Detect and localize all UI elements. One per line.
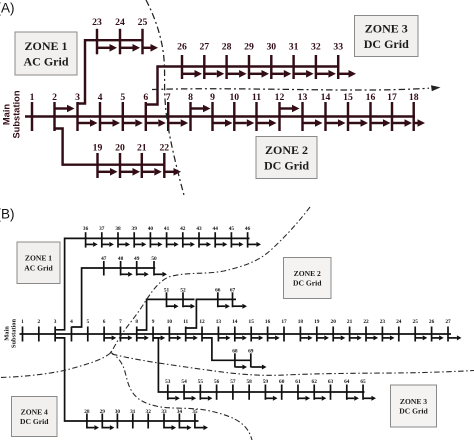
main feeder wire (B) bbox=[20, 333, 452, 335]
svg-text:3: 3 bbox=[54, 319, 57, 325]
bus 19 bbox=[314, 319, 320, 342]
load arrow bus 25 bbox=[144, 44, 159, 52]
svg-text:Substation: Substation bbox=[12, 90, 22, 138]
load arrow bus 25 bbox=[416, 335, 428, 340]
bus 65 bbox=[360, 379, 366, 400]
svg-text:42: 42 bbox=[180, 226, 186, 232]
load arrow bus 51 bbox=[167, 304, 179, 309]
load arrow bus 68 bbox=[235, 365, 247, 370]
load arrow bus 35 bbox=[195, 425, 208, 430]
bus 69 bbox=[248, 349, 254, 368]
load arrow bus 26 bbox=[183, 70, 202, 78]
bus 61 bbox=[295, 379, 301, 400]
bus 10 bbox=[167, 319, 173, 342]
load arrow bus 42 bbox=[183, 242, 195, 247]
bus 51 bbox=[164, 287, 170, 307]
svg-text:ZONE 3: ZONE 3 bbox=[365, 22, 408, 36]
bus 26 bbox=[429, 319, 435, 342]
load arrow bus 33 bbox=[165, 425, 177, 430]
svg-text:AC Grid: AC Grid bbox=[24, 263, 53, 272]
bus 6 bbox=[143, 92, 148, 131]
load arrow bus 46 bbox=[248, 242, 261, 247]
svg-text:65: 65 bbox=[360, 379, 366, 385]
svg-text:12: 12 bbox=[199, 319, 205, 325]
svg-text:2: 2 bbox=[52, 92, 57, 103]
svg-text:25: 25 bbox=[138, 17, 148, 28]
svg-text:9: 9 bbox=[210, 92, 215, 103]
svg-text:14: 14 bbox=[321, 92, 331, 103]
svg-text:Substation: Substation bbox=[11, 318, 18, 348]
svg-text:57: 57 bbox=[230, 379, 236, 385]
zone 3 DC grid box (B) bbox=[391, 385, 437, 427]
bus 55 bbox=[198, 379, 204, 400]
bus 12 bbox=[275, 92, 285, 131]
bus 25 bbox=[413, 319, 419, 342]
zone 1 AC grid box (B) bbox=[17, 242, 60, 284]
svg-text:23: 23 bbox=[92, 17, 102, 28]
svg-text:26: 26 bbox=[429, 319, 435, 325]
svg-text:41: 41 bbox=[164, 226, 170, 232]
svg-text:26: 26 bbox=[177, 42, 187, 53]
svg-text:45: 45 bbox=[229, 226, 235, 232]
bus 4 bbox=[70, 319, 73, 342]
svg-text:ZONE 2: ZONE 2 bbox=[265, 143, 308, 157]
bus 11 bbox=[183, 319, 188, 342]
zone boundary curve 1-3 / 1-2 (A) bbox=[146, 0, 185, 197]
svg-text:6: 6 bbox=[103, 319, 106, 325]
svg-text:5: 5 bbox=[120, 92, 125, 103]
bus 28 bbox=[222, 42, 232, 80]
bus 28 bbox=[84, 409, 90, 429]
bus 17 bbox=[387, 92, 397, 131]
figure label (A) bbox=[0, 1, 15, 16]
load arrow bus 39 bbox=[135, 242, 147, 247]
bus 7 bbox=[119, 319, 122, 342]
load arrow bus 10 bbox=[235, 119, 254, 127]
bus 47 bbox=[101, 256, 107, 276]
svg-text:17: 17 bbox=[281, 319, 287, 325]
load arrow bus 26 bbox=[432, 335, 444, 340]
zone boundary 3-2 with arrow (A) bbox=[152, 85, 441, 91]
bus 46 bbox=[245, 226, 251, 248]
load arrow bus 67 bbox=[233, 304, 247, 309]
svg-text:38: 38 bbox=[115, 226, 121, 232]
bus 1 bbox=[30, 92, 35, 131]
bus 57 bbox=[230, 379, 236, 400]
load arrow bus 14 bbox=[327, 119, 346, 127]
bus 50 bbox=[151, 256, 157, 276]
svg-text:49: 49 bbox=[134, 256, 140, 262]
zone 2 DC grid box (B) bbox=[284, 258, 332, 299]
load arrow bus 29 bbox=[103, 425, 115, 430]
svg-text:62: 62 bbox=[312, 379, 318, 385]
bus 23 bbox=[380, 319, 386, 342]
bus 20 bbox=[115, 143, 125, 179]
load arrow bus 40 bbox=[151, 242, 163, 247]
load arrow bus 49 bbox=[137, 272, 149, 277]
load arrow bus 23 bbox=[383, 335, 395, 340]
load arrow bus 31 bbox=[295, 70, 314, 78]
svg-text:34: 34 bbox=[177, 409, 183, 415]
figure label (B) bbox=[0, 207, 15, 222]
bus 17 bbox=[281, 319, 287, 342]
bus 62 bbox=[312, 379, 318, 400]
bus 11 bbox=[252, 92, 261, 131]
bus 2 bbox=[37, 319, 40, 342]
load arrow bus 4 bbox=[101, 119, 120, 127]
svg-text:11: 11 bbox=[252, 92, 261, 103]
load arrow bus 34 bbox=[180, 425, 192, 430]
load arrow bus 27 bbox=[449, 335, 462, 340]
load arrow bus 27 bbox=[205, 70, 224, 78]
svg-text:30: 30 bbox=[115, 409, 121, 415]
load arrow bus 14 bbox=[235, 335, 247, 340]
svg-text:63: 63 bbox=[328, 379, 334, 385]
svg-text:ZONE 4: ZONE 4 bbox=[21, 407, 48, 416]
load arrow bus 6 bbox=[147, 119, 166, 127]
bus 44 bbox=[213, 226, 219, 248]
feeder lateral 51-52 wire (B) bbox=[137, 299, 195, 330]
load arrow bus 7 bbox=[121, 335, 133, 340]
zone 2 DC grid box (A) bbox=[256, 137, 317, 179]
bus 10 bbox=[229, 92, 239, 131]
load arrow bus 23 bbox=[98, 44, 117, 52]
bus 30 bbox=[266, 42, 276, 80]
bus 1 bbox=[21, 319, 24, 342]
load arrow bus 30 bbox=[272, 70, 291, 78]
svg-text:18: 18 bbox=[298, 319, 304, 325]
svg-text:10: 10 bbox=[229, 92, 239, 103]
svg-text:4: 4 bbox=[98, 92, 103, 103]
bus 54 bbox=[181, 379, 187, 400]
svg-text:68: 68 bbox=[232, 349, 238, 355]
bus 29 bbox=[244, 42, 254, 80]
bus 52 bbox=[180, 287, 186, 307]
bus 35 bbox=[192, 409, 198, 429]
bus 59 bbox=[263, 379, 269, 400]
svg-text:17: 17 bbox=[387, 92, 397, 103]
svg-text:(A): (A) bbox=[0, 1, 15, 16]
main substation label (A) bbox=[2, 90, 22, 138]
bus 45 bbox=[229, 226, 235, 248]
load arrow bus 13 bbox=[219, 335, 231, 340]
load arrow bus 8 bbox=[137, 335, 149, 340]
bus 34 bbox=[177, 409, 183, 429]
bus 3 bbox=[54, 319, 57, 342]
svg-text:DC Grid: DC Grid bbox=[264, 159, 309, 173]
svg-text:8: 8 bbox=[188, 92, 193, 103]
svg-text:66: 66 bbox=[215, 287, 221, 293]
svg-text:29: 29 bbox=[100, 409, 106, 415]
load arrow bus 15 bbox=[252, 335, 264, 340]
load arrow bus 17 bbox=[393, 119, 412, 127]
svg-text:6: 6 bbox=[143, 92, 148, 103]
bus 56 bbox=[214, 379, 220, 400]
zone boundary curve 4 (B) bbox=[110, 352, 252, 440]
feeder lateral 66-67 wire (B) bbox=[186, 299, 236, 328]
svg-text:46: 46 bbox=[245, 226, 251, 232]
svg-text:7: 7 bbox=[119, 319, 122, 325]
load arrow bus 65 bbox=[364, 396, 376, 401]
load arrow bus 41 bbox=[167, 242, 179, 247]
load arrow bus 5 bbox=[124, 119, 143, 127]
svg-text:24: 24 bbox=[396, 319, 402, 325]
svg-text:51: 51 bbox=[164, 287, 170, 293]
load arrow bus 3 bbox=[79, 119, 98, 127]
svg-text:31: 31 bbox=[289, 42, 299, 53]
svg-text:54: 54 bbox=[181, 379, 187, 385]
feeder lateral 28-35 wire (B) bbox=[55, 338, 198, 421]
svg-text:44: 44 bbox=[213, 226, 219, 232]
svg-text:29: 29 bbox=[244, 42, 254, 53]
bus 27 bbox=[445, 319, 451, 342]
bus 7 bbox=[166, 92, 171, 131]
load arrow bus 29 bbox=[250, 70, 269, 78]
svg-text:59: 59 bbox=[263, 379, 269, 385]
load arrow bus 28 bbox=[228, 70, 247, 78]
svg-text:28: 28 bbox=[84, 409, 90, 415]
zone 1 AC grid box (A) bbox=[15, 32, 77, 75]
bus 21 bbox=[137, 143, 147, 179]
bus 29 bbox=[100, 409, 106, 429]
load arrow bus 62 bbox=[315, 396, 327, 401]
svg-text:58: 58 bbox=[246, 379, 252, 385]
load arrow bus 48 bbox=[121, 272, 133, 277]
load arrow bus 19 bbox=[99, 168, 118, 176]
load arrow bus 38 bbox=[119, 242, 131, 247]
svg-text:61: 61 bbox=[295, 379, 301, 385]
load arrow bus 10 bbox=[170, 335, 182, 340]
bus 25 bbox=[138, 17, 148, 54]
svg-text:7: 7 bbox=[166, 92, 171, 103]
load arrow bus 50 bbox=[155, 272, 168, 277]
zone 3 DC grid box (A) bbox=[355, 16, 419, 57]
load arrow bus 64 bbox=[347, 396, 359, 401]
load arrow bus 22 bbox=[165, 168, 181, 176]
svg-text:55: 55 bbox=[198, 379, 204, 385]
svg-text:ZONE 2: ZONE 2 bbox=[294, 269, 321, 278]
bus 15 bbox=[343, 92, 353, 131]
bus 2 bbox=[52, 92, 57, 131]
svg-text:27: 27 bbox=[199, 42, 209, 53]
svg-text:16: 16 bbox=[366, 92, 376, 103]
svg-text:32: 32 bbox=[146, 409, 152, 415]
load arrow bus 15 bbox=[349, 119, 368, 127]
svg-text:52: 52 bbox=[180, 287, 186, 293]
svg-text:14: 14 bbox=[232, 319, 238, 325]
bus 64 bbox=[344, 379, 350, 400]
bus 5 bbox=[120, 92, 125, 131]
bus 41 bbox=[164, 226, 170, 248]
svg-text:ZONE 1: ZONE 1 bbox=[25, 254, 52, 263]
bus 19 bbox=[93, 143, 103, 179]
bus 53 bbox=[165, 379, 171, 400]
svg-text:11: 11 bbox=[183, 319, 188, 325]
svg-text:ZONE 3: ZONE 3 bbox=[400, 397, 427, 406]
load arrow bus 9 bbox=[154, 335, 166, 340]
load arrow bus 16 bbox=[372, 119, 391, 127]
svg-text:56: 56 bbox=[214, 379, 220, 385]
load arrow bus 8 bbox=[192, 105, 211, 113]
zone boundary curve upper (B) bbox=[111, 207, 311, 353]
load arrow bus 18 bbox=[301, 335, 313, 340]
bus 8 bbox=[135, 319, 138, 342]
bus 14 bbox=[232, 319, 238, 342]
bus 48 bbox=[118, 256, 124, 276]
zone boundary curve right (B) bbox=[112, 354, 474, 375]
bus 40 bbox=[148, 226, 154, 248]
svg-text:30: 30 bbox=[266, 42, 276, 53]
svg-text:20: 20 bbox=[331, 319, 337, 325]
load arrow bus 9 bbox=[214, 119, 233, 127]
load arrow bus 20 bbox=[334, 335, 346, 340]
load arrow bus 16 bbox=[268, 335, 280, 340]
bus 21 bbox=[347, 319, 353, 342]
svg-text:19: 19 bbox=[314, 319, 320, 325]
bus 18 bbox=[409, 92, 419, 131]
zone boundary curve lower-left (B) bbox=[0, 353, 111, 378]
bus 13 bbox=[216, 319, 222, 342]
bus 32 bbox=[146, 409, 152, 429]
svg-text:47: 47 bbox=[101, 256, 107, 262]
bus 36 bbox=[83, 226, 89, 248]
svg-text:60: 60 bbox=[279, 379, 285, 385]
load arrow bus 2 bbox=[56, 105, 75, 113]
svg-text:23: 23 bbox=[380, 319, 386, 325]
bus 20 bbox=[331, 319, 337, 342]
svg-text:1: 1 bbox=[21, 319, 24, 325]
load arrow bus 18 bbox=[415, 119, 425, 127]
svg-text:69: 69 bbox=[248, 349, 254, 355]
bus 68 bbox=[232, 349, 238, 368]
svg-text:24: 24 bbox=[115, 17, 125, 28]
load arrow bus 22 bbox=[367, 335, 379, 340]
svg-text:13: 13 bbox=[298, 92, 308, 103]
load arrow bus 45 bbox=[232, 242, 244, 247]
bus 3 bbox=[75, 92, 80, 131]
load arrow bus 33 bbox=[339, 70, 356, 78]
svg-text:(B): (B) bbox=[0, 207, 15, 222]
svg-text:22: 22 bbox=[363, 319, 369, 325]
load arrow bus 7 bbox=[169, 119, 188, 127]
bus 33 bbox=[333, 42, 343, 80]
bus 16 bbox=[265, 319, 271, 342]
bus 26 bbox=[177, 42, 187, 80]
bus 32 bbox=[311, 42, 321, 80]
svg-text:DC Grid: DC Grid bbox=[364, 37, 409, 51]
svg-text:20: 20 bbox=[115, 143, 125, 154]
svg-text:12: 12 bbox=[275, 92, 285, 103]
main substation label (B) bbox=[3, 318, 17, 348]
bus 31 bbox=[130, 409, 136, 429]
load arrow bus 13 bbox=[304, 119, 323, 127]
load arrow bus 21 bbox=[350, 335, 362, 340]
svg-text:37: 37 bbox=[99, 226, 105, 232]
svg-text:15: 15 bbox=[249, 319, 255, 325]
svg-text:2: 2 bbox=[37, 319, 40, 325]
bus 31 bbox=[289, 42, 299, 80]
svg-text:40: 40 bbox=[148, 226, 154, 232]
feeder lateral 26-33 wire (A) bbox=[146, 67, 339, 105]
svg-text:67: 67 bbox=[230, 287, 236, 293]
svg-text:3: 3 bbox=[75, 92, 80, 103]
bus 63 bbox=[328, 379, 334, 400]
load arrow bus 66 bbox=[218, 304, 230, 309]
load arrow bus 20 bbox=[121, 168, 140, 176]
bus 22 bbox=[363, 319, 369, 342]
bus 60 bbox=[279, 379, 285, 400]
bus 14 bbox=[321, 92, 331, 131]
svg-text:31: 31 bbox=[130, 409, 136, 415]
svg-text:35: 35 bbox=[192, 409, 198, 415]
bus 22 bbox=[159, 143, 169, 179]
load arrow bus 36 bbox=[86, 242, 98, 247]
svg-text:13: 13 bbox=[216, 319, 222, 325]
load arrow bus 24 bbox=[121, 44, 140, 52]
svg-text:10: 10 bbox=[167, 319, 173, 325]
load arrow bus 6 bbox=[105, 335, 117, 340]
load arrow bus 11 bbox=[258, 119, 277, 127]
load arrow bus 59 bbox=[266, 396, 278, 401]
svg-text:50: 50 bbox=[151, 256, 157, 262]
load arrow bus 55 bbox=[201, 396, 213, 401]
bus 23 bbox=[92, 17, 102, 54]
svg-text:DC Grid: DC Grid bbox=[20, 417, 49, 426]
bus 9 bbox=[152, 319, 155, 342]
svg-text:21: 21 bbox=[347, 319, 353, 325]
svg-text:43: 43 bbox=[196, 226, 202, 232]
load arrow bus 28 bbox=[87, 425, 99, 430]
svg-text:39: 39 bbox=[132, 226, 138, 232]
svg-text:5: 5 bbox=[86, 319, 89, 325]
bus 27 bbox=[199, 42, 209, 80]
feeder lateral 36-46 wire (B) bbox=[55, 238, 249, 329]
svg-text:33: 33 bbox=[333, 42, 343, 53]
bus 8 bbox=[188, 92, 193, 131]
svg-text:21: 21 bbox=[137, 143, 147, 154]
bus 39 bbox=[132, 226, 138, 248]
feeder lateral 19-22 wire (A) bbox=[55, 129, 166, 165]
load arrow bus 12 bbox=[281, 105, 300, 113]
load arrow bus 21 bbox=[143, 168, 162, 176]
bus 24 bbox=[396, 319, 402, 342]
svg-text:DC Grid: DC Grid bbox=[293, 279, 322, 288]
svg-text:Main: Main bbox=[3, 326, 10, 341]
svg-text:28: 28 bbox=[222, 42, 232, 53]
svg-text:27: 27 bbox=[445, 319, 451, 325]
bus 16 bbox=[366, 92, 376, 131]
bus 38 bbox=[115, 226, 121, 248]
feeder lateral 23-25 wire (A) bbox=[78, 40, 144, 103]
bus 18 bbox=[298, 319, 304, 342]
svg-text:ZONE 1: ZONE 1 bbox=[24, 39, 67, 53]
bus 15 bbox=[249, 319, 255, 342]
load arrow bus 37 bbox=[102, 242, 114, 247]
bus 49 bbox=[134, 256, 140, 276]
bus 30 bbox=[115, 409, 121, 429]
svg-text:19: 19 bbox=[93, 143, 103, 154]
bus 24 bbox=[115, 17, 125, 54]
bus 42 bbox=[180, 226, 186, 248]
load arrow bus 53 bbox=[168, 396, 180, 401]
load arrow bus 61 bbox=[298, 396, 310, 401]
svg-text:33: 33 bbox=[161, 409, 167, 415]
bus 6 bbox=[103, 319, 106, 342]
bus 67 bbox=[230, 287, 236, 307]
svg-text:DC Grid: DC Grid bbox=[399, 407, 428, 416]
feeder lateral 53-65 wire (B) bbox=[153, 338, 364, 392]
bus 37 bbox=[99, 226, 105, 248]
